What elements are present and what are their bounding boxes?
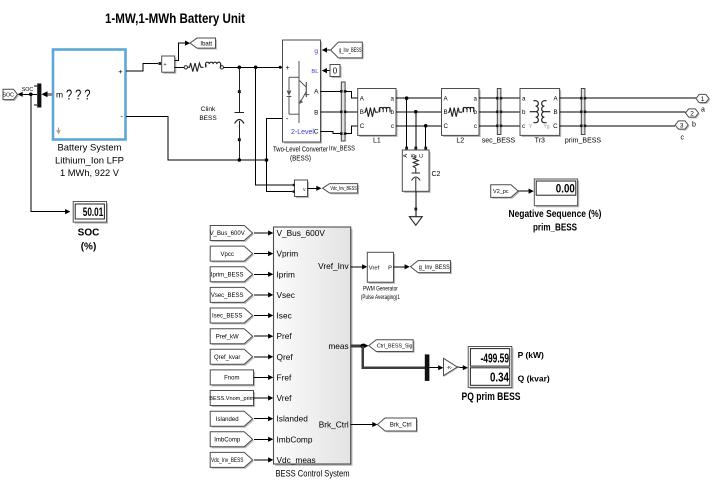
svg-text:Brk_Ctrl: Brk_Ctrl (319, 420, 349, 430)
three-phase RL block L1 (359, 90, 397, 137)
svg-text:(%): (%) (81, 242, 97, 253)
voltage sensor Vdc (296, 182, 309, 199)
wire C2 to ground (415, 191, 417, 216)
wire L2 c to sec_BESS (479, 125, 520, 127)
svg-text:Pref: Pref (277, 331, 293, 341)
svg-text:Vdc_Inv_BESS: Vdc_Inv_BESS (330, 186, 357, 192)
node junction DC- corner (265, 158, 269, 162)
node junction vdc tap top (254, 66, 258, 70)
svg-text:L2: L2 (456, 138, 464, 145)
svg-text:BL: BL (311, 69, 319, 75)
svg-text:Vref: Vref (369, 265, 380, 271)
svg-text:Vpcc: Vpcc (221, 252, 234, 258)
svg-text:c: c (474, 123, 477, 130)
measurement bar sec_BESS (497, 89, 501, 135)
svg-text:C: C (314, 129, 319, 136)
wire Brk_Ctrl to goto tag (351, 424, 374, 426)
transformer Tr3 (522, 90, 562, 137)
constant 0 block (326, 70, 330, 72)
wire V_Bus_600V to control input V_Bus_600V (254, 232, 269, 234)
wire sensor to RL branch (175, 67, 184, 69)
svg-text:1: 1 (701, 96, 705, 103)
svg-text:Vref: Vref (277, 393, 293, 403)
wire Fnom to control input Fref (254, 376, 269, 378)
svg-text:B: B (553, 109, 557, 116)
svg-text:Vdc_meas: Vdc_meas (277, 455, 316, 465)
node junction cap bottom (238, 158, 242, 162)
svg-text:Brk_Ctrl: Brk_Ctrl (390, 423, 412, 429)
svg-text:Isec: Isec (277, 311, 292, 321)
wire converter B to Inv_BESS bar (321, 111, 342, 113)
node junction phase b to C2 (414, 110, 418, 114)
svg-text:0.34: 0.34 (490, 371, 509, 385)
svg-text:A: A (314, 89, 319, 96)
wire junction down to SOC display (31, 94, 67, 211)
port 2 (687, 110, 700, 118)
wire down to C2 A (406, 98, 408, 150)
svg-text:a: a (522, 96, 526, 103)
wire DC- to Vdc sensor (267, 160, 293, 192)
svg-text:g_Inv_BESS: g_Inv_BESS (339, 48, 362, 54)
svg-text:Negative Sequence (%): Negative Sequence (%) (509, 209, 602, 220)
svg-text:m: m (56, 90, 63, 100)
wire current sensor to Ibatt goto tag (175, 43, 186, 60)
measurement bar prim_BESS (581, 89, 585, 135)
svg-text:b: b (522, 109, 526, 116)
svg-text:prim_BESS: prim_BESS (565, 138, 602, 145)
svg-text:B: B (314, 109, 318, 116)
svg-text:+: + (118, 67, 123, 76)
wire Vsec_BESS to control input Vsec (254, 294, 269, 296)
svg-text:Qref_kvar: Qref_kvar (214, 355, 240, 361)
node junction on SOC wire (29, 93, 33, 97)
from tag Iprim_BESS (212, 268, 254, 283)
wire Inv_BESS bar to L1 C (345, 126, 358, 134)
svg-text:C2: C2 (432, 171, 441, 178)
svg-text:a: a (474, 96, 478, 103)
goto tag SOC (4, 91, 19, 101)
gain -K- (445, 359, 459, 376)
svg-text:1 MWh, 922 V: 1 MWh, 922 V (60, 168, 120, 178)
wire Vpcc to control input Vprim (254, 253, 269, 255)
wire Vdc_Inv_BESS to control input Vdc_meas (254, 459, 269, 461)
svg-text:C: C (553, 123, 558, 130)
svg-text:Vref_Inv: Vref_Inv (318, 261, 349, 271)
wire Inv_BESS bar to L1 B (345, 111, 358, 113)
wire PWM to g_Inv_BESS goto (394, 266, 406, 268)
svg-text:Fnom: Fnom (224, 376, 239, 382)
selector bar (425, 354, 430, 381)
wire gain to display (457, 366, 464, 369)
svg-text:b: b (391, 109, 395, 116)
svg-text:PWM Generator: PWM Generator (363, 287, 398, 293)
wire down to C2 C (425, 126, 427, 150)
svg-text:B: B (360, 109, 364, 116)
svg-text:Battery System: Battery System (58, 142, 122, 152)
svg-text:meas: meas (328, 341, 348, 351)
battery block Battery System (53, 50, 126, 140)
wire Vdc sensor to goto tag (308, 187, 318, 189)
svg-text:ImbComp: ImbComp (277, 434, 313, 444)
svg-text:P: P (388, 265, 392, 271)
wire Isec_BESS to control input Isec (254, 315, 269, 317)
from tag g_Inv_BESS (gate) (326, 49, 331, 51)
svg-text:+: + (286, 65, 290, 72)
from tag Islanded (212, 413, 254, 428)
from tag V2_pc (492, 186, 519, 199)
node junction meas (360, 344, 365, 349)
svg-text:Yg: Yg (543, 124, 549, 130)
wire Islanded to control input Islanded (254, 418, 269, 420)
svg-text:BESS: BESS (199, 115, 217, 122)
node junction cap top (238, 66, 242, 70)
svg-text:V2_pc: V2_pc (493, 189, 509, 195)
goto tag Ctrl_BESS_Sig (370, 341, 414, 353)
goto tag Ibatt (191, 39, 217, 49)
svg-text:Qref: Qref (277, 352, 294, 362)
svg-text:V_Bus_600V: V_Bus_600V (277, 228, 326, 238)
port 1 (697, 96, 710, 104)
svg-text:C: C (444, 123, 449, 130)
wire battery plus to current sensor (126, 64, 158, 72)
svg-text:50.01: 50.01 (83, 205, 104, 219)
svg-text:? ? ?: ? ? ? (66, 88, 91, 104)
goto tag Brk_Ctrl (379, 419, 418, 432)
wire battery minus to DC- rail (126, 116, 267, 160)
measurement bar Inv_BESS (341, 82, 345, 141)
from tag Vpcc (212, 248, 254, 263)
constant BESS.Vnom_prim (212, 392, 255, 407)
svg-text:Fref: Fref (277, 372, 292, 382)
svg-text:(Pulse Averaging)1: (Pulse Averaging)1 (361, 295, 401, 301)
svg-text:Ibatt: Ibatt (200, 41, 212, 47)
from tag Qref_kvar (212, 351, 254, 366)
wire Vref_Inv to PWM (351, 266, 364, 268)
svg-text:Q (kvar): Q (kvar) (518, 374, 550, 384)
svg-text:SOC: SOC (22, 87, 34, 93)
wire down to C2 B (415, 112, 417, 150)
node junction phase c to C2 (424, 124, 428, 128)
two-level converter block (284, 42, 322, 144)
wire selector to gain (429, 367, 439, 369)
wire Tr3 C to port 3 (560, 125, 676, 127)
wire battery m to bus selector (thick) (44, 93, 53, 96)
svg-text:-K-: -K- (446, 365, 453, 370)
svg-text:3: 3 (680, 122, 684, 129)
goto tag g_Inv_BESS (412, 262, 452, 274)
from tag V_Bus_600V (212, 227, 254, 242)
svg-text:c: c (391, 123, 394, 130)
bus selector (37, 84, 41, 108)
svg-text:Vprim: Vprim (277, 249, 299, 259)
svg-text:2-Level: 2-Level (291, 129, 314, 136)
wire L2 a to sec_BESS (479, 97, 520, 99)
svg-text:a: a (701, 107, 705, 114)
svg-text:A: A (403, 154, 409, 158)
svg-text:Vdc_Inv_BESS: Vdc_Inv_BESS (211, 458, 244, 464)
wire meas down to selector (thick) (363, 346, 425, 368)
svg-text:Pref_kW: Pref_kW (216, 334, 239, 340)
svg-text:SOC: SOC (3, 92, 15, 98)
svg-text:Ctrl_BESS_Sig: Ctrl_BESS_Sig (377, 344, 413, 350)
svg-text:g_Inv_BESS: g_Inv_BESS (419, 265, 450, 271)
svg-text:c: c (522, 123, 525, 130)
svg-text:g: g (314, 48, 318, 55)
svg-text:Lithium_Ion LFP: Lithium_Ion LFP (55, 156, 124, 166)
display PQ prim BESS (470, 348, 514, 389)
svg-text:PQ prim BESS: PQ prim BESS (462, 391, 521, 403)
svg-text:Vsec_BESS: Vsec_BESS (211, 293, 244, 299)
current sensor block (163, 58, 176, 74)
svg-text:Iprim: Iprim (277, 269, 296, 279)
svg-text:C: C (360, 123, 365, 130)
node junction phase a to C2 (405, 96, 409, 100)
wire ImbComp to control input ImbComp (254, 438, 269, 440)
svg-text:+: + (163, 62, 167, 68)
three-phase RL block L2 (443, 90, 481, 137)
svg-text:Isec_BESS: Isec_BESS (212, 314, 242, 320)
from tag Vdc_Inv_BESS (212, 454, 254, 469)
wire Inv_BESS bar to L1 A (345, 91, 358, 98)
svg-text:V_Bus_600V: V_Bus_600V (210, 231, 245, 237)
svg-text:Iprim_BESS: Iprim_BESS (211, 272, 244, 278)
svg-text:prim_BESS: prim_BESS (533, 223, 577, 234)
from tag Pref_kW (212, 330, 254, 345)
capacitor bank C2 (404, 152, 431, 193)
constant Fnom (212, 372, 255, 387)
svg-text:0: 0 (333, 67, 338, 76)
svg-text:B: B (444, 109, 448, 116)
svg-text:SOC: SOC (78, 228, 100, 239)
wire V2_pc to display (518, 190, 529, 192)
svg-text:(BESS): (BESS) (290, 156, 311, 163)
wire Tr3 A to prim_BESS and port 1 (560, 97, 696, 99)
svg-text:Tr3: Tr3 (535, 138, 545, 145)
svg-text:0.00: 0.00 (556, 182, 575, 196)
converter IGBT-diode icon (298, 61, 300, 123)
wire L2 b to sec_BESS (479, 111, 520, 113)
svg-text:BESS.Vnom_prim: BESS.Vnom_prim (209, 396, 254, 402)
node converter plus port (279, 66, 282, 69)
series RL element (184, 66, 187, 69)
svg-text:Islanded: Islanded (277, 414, 309, 424)
svg-text:C: C (419, 154, 425, 158)
wire L1 b to L2 B (396, 111, 442, 113)
svg-text:Islanded: Islanded (216, 417, 239, 423)
from tag Vsec_BESS (212, 289, 254, 304)
svg-text:Two-Level Converter: Two-Level Converter (273, 147, 329, 154)
wire Pref_kW to control input Pref (254, 335, 269, 337)
display negative sequence (536, 181, 579, 208)
svg-text:Vsec: Vsec (277, 290, 295, 300)
wire RL to converter plus (DC+ rail) (224, 66, 283, 68)
wire BESS.Vnom_prim to control input Vref (254, 397, 269, 399)
from tag Isec_BESS (212, 309, 254, 324)
goto tag Vdc_Inv_BESS (324, 185, 359, 194)
wire L1 a to L2 A (396, 97, 442, 99)
svg-text:sec_BESS: sec_BESS (482, 138, 516, 145)
wire converter A to Inv_BESS bar (321, 90, 342, 92)
ground (409, 217, 422, 226)
subsystem BESS Control System (275, 229, 352, 466)
svg-text:a: a (391, 96, 395, 103)
wire bus selector to SOC goto tag (21, 93, 37, 95)
svg-text:b: b (692, 122, 696, 129)
svg-text:2: 2 (690, 110, 694, 117)
svg-text:-499.59: -499.59 (481, 351, 510, 365)
port 3 (677, 122, 690, 130)
wire Qref_kvar to control input Qref (254, 356, 269, 358)
svg-text:c: c (681, 135, 685, 142)
svg-text:P (kW): P (kW) (518, 350, 544, 360)
wire converter minus (267, 118, 283, 160)
svg-text:L1: L1 (373, 138, 381, 145)
svg-text:BESS Control System: BESS Control System (276, 469, 350, 479)
wire meas bus (thick) (351, 345, 363, 348)
svg-text:1-MW,1-MWh Battery Unit: 1-MW,1-MWh Battery Unit (105, 10, 245, 26)
wire converter C to Inv_BESS bar (321, 131, 342, 133)
wire L1 c to L2 C (396, 125, 442, 127)
from tag ImbComp (212, 433, 254, 448)
wire Tr3 B to port 2 (560, 111, 686, 113)
PWM generator block (369, 254, 395, 284)
display SOC value (75, 203, 108, 224)
capacitor Clink BESS (238, 67, 240, 112)
svg-text:ImbComp: ImbComp (214, 437, 241, 443)
svg-text:Inv_BESS: Inv_BESS (329, 145, 355, 152)
wire Iprim_BESS to control input Iprim (254, 273, 269, 275)
svg-text:Clink: Clink (201, 106, 216, 113)
wire DC+ tap to Vdc sensor (256, 67, 293, 185)
